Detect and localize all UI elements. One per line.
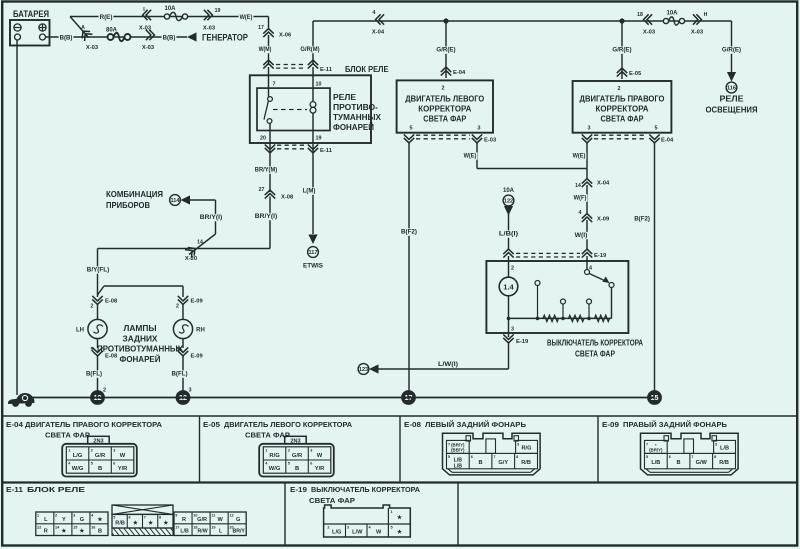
wire lamp LH top [97, 304, 99, 320]
svg-text:RH: RH [196, 328, 205, 334]
svg-text:8: 8 [516, 455, 518, 459]
svg-text:G/R(M): G/R(M) [300, 46, 319, 53]
svg-text:6: 6 [113, 462, 115, 466]
svg-text:1: 1 [265, 449, 267, 453]
svg-text:BR/Y(I): BR/Y(I) [200, 214, 222, 221]
table divider E-04/E-05 [199, 416, 201, 483]
svg-text:R: R [182, 517, 186, 523]
fuse feed 10A [503, 188, 515, 194]
svg-text:W: W [217, 517, 223, 523]
label G/R(M) [299, 46, 320, 53]
svg-text:7: 7 [273, 82, 276, 88]
label G/R(E) right [721, 46, 742, 53]
fuse 10A (right) [663, 11, 684, 26]
label W(E) right [572, 152, 587, 159]
section title E-05 [203, 420, 352, 440]
label B(F2) left [400, 228, 418, 235]
contact stud 1 [535, 281, 540, 319]
svg-text:КОМБИНАЦИЯ: КОМБИНАЦИЯ [106, 189, 163, 199]
svg-text:ОСВЕЩЕНИЯ: ОСВЕЩЕНИЯ [706, 105, 758, 115]
svg-text:G: G [236, 517, 240, 523]
svg-text:R/B: R/B [521, 460, 531, 466]
ground 15 [647, 390, 662, 405]
label W(F) [573, 194, 588, 201]
svg-text:7: 7 [691, 455, 693, 459]
connector pinout E-19 [324, 505, 411, 537]
svg-text:3: 3 [188, 388, 191, 394]
svg-text:3: 3 [517, 443, 519, 447]
svg-text:10A: 10A [503, 188, 515, 194]
svg-text:A: A [81, 25, 85, 31]
wire branch diagonal [70, 17, 89, 38]
fuse 80A [106, 28, 131, 42]
ref circle 114 [170, 195, 181, 206]
svg-text:E-09: E-09 [191, 299, 204, 305]
node sw2 [536, 317, 540, 321]
pin 19 [316, 136, 322, 142]
svg-text:G/R: G/R [197, 517, 207, 523]
resistor R1 [543, 315, 559, 321]
resistor R3 [595, 315, 610, 321]
wire lamp RH bottom [182, 339, 184, 348]
pin 2 switch [511, 266, 514, 272]
svg-text:10A: 10A [666, 11, 678, 17]
svg-text:ГЕНЕРАТОР: ГЕНЕРАТОР [202, 33, 249, 44]
label L(M) [302, 187, 317, 194]
svg-text:ТУМАННЫХ: ТУМАННЫХ [333, 113, 382, 122]
label lighting relay [706, 94, 758, 115]
connector X-09 pin 4 [579, 210, 610, 223]
svg-text:E-19: E-19 [594, 253, 607, 259]
svg-text:E-11: E-11 [320, 148, 333, 154]
svg-text:12: 12 [229, 514, 233, 518]
contact stud 2 [561, 299, 566, 318]
svg-text:W(M): W(M) [259, 46, 272, 53]
connector pinout E-05 [259, 436, 334, 476]
svg-text:6: 6 [669, 455, 671, 459]
label BR/Y(I) cluster [199, 214, 223, 221]
svg-text:2: 2 [103, 388, 106, 394]
pin 4 switch [589, 266, 592, 272]
svg-text:L/G: L/G [332, 530, 341, 536]
bulb 1.4 [499, 277, 518, 296]
svg-text:7: 7 [493, 455, 495, 459]
svg-text:W(E): W(E) [240, 14, 253, 21]
svg-text:6: 6 [310, 462, 312, 466]
svg-text:10A: 10A [164, 6, 176, 12]
svg-text:L/B: L/B [454, 463, 463, 469]
svg-text:1: 1 [391, 510, 393, 514]
svg-text:W(E): W(E) [464, 153, 477, 160]
svg-text:ПРОТИВОТУМАННЫХ: ПРОТИВОТУМАННЫХ [97, 345, 184, 354]
svg-text:R/G: R/G [269, 453, 280, 459]
svg-text:20: 20 [260, 136, 266, 142]
svg-text:L/B: L/B [180, 529, 189, 535]
relay switch contact [264, 97, 272, 124]
svg-text:B(F2): B(F2) [401, 229, 417, 236]
svg-text:СВЕТА ФАР: СВЕТА ФАР [423, 115, 467, 124]
svg-text:СВЕТА ФАР: СВЕТА ФАР [309, 496, 355, 505]
svg-text:E-04: E-04 [661, 138, 674, 144]
svg-text:E-05: E-05 [203, 420, 220, 429]
svg-text:ВЫКЛЮЧАТЕЛЬ КОРРЕКТОРА: ВЫКЛЮЧАТЕЛЬ КОРРЕКТОРА [311, 485, 420, 494]
label R(E) [99, 14, 114, 21]
svg-text:(BR/Y): (BR/Y) [649, 448, 663, 453]
wire B(F2) right [654, 143, 656, 392]
svg-text:B: B [98, 529, 102, 535]
section title E-19 [290, 485, 420, 505]
svg-text:E-08: E-08 [105, 299, 118, 305]
section title E-08 [404, 420, 527, 429]
svg-text:16: 16 [91, 525, 95, 529]
svg-text:R: R [44, 529, 48, 535]
svg-text:W(F): W(F) [574, 195, 587, 202]
wire G/R(E) left motor [445, 21, 447, 78]
connector X-03 pin 18 [637, 12, 656, 36]
relay coil [310, 102, 316, 114]
svg-text:G/R(E): G/R(E) [722, 47, 741, 54]
svg-text:4: 4 [579, 210, 582, 216]
ref circle 122 [503, 195, 514, 206]
svg-text:15: 15 [73, 525, 77, 529]
arrow from fuse 122 [504, 206, 513, 216]
svg-text:L/B(I): L/B(I) [499, 231, 518, 238]
svg-text:5: 5 [391, 526, 393, 530]
connector E-08 bottom [91, 347, 118, 360]
svg-text:19: 19 [211, 525, 215, 529]
connector pinout E-04 [62, 436, 137, 476]
label W(M) [258, 46, 273, 53]
svg-text:H: H [704, 12, 708, 18]
wire L/B(I) [508, 213, 510, 249]
label W(I) [574, 232, 589, 239]
svg-text:X-04: X-04 [372, 30, 385, 36]
svg-text:БЛОК РЕЛЕ: БЛОК РЕЛЕ [27, 485, 85, 494]
svg-text:X-03: X-03 [203, 26, 216, 32]
arrow to lighting relay [727, 72, 736, 82]
ground 12 (RH lamp) [176, 388, 192, 405]
svg-text:R(E): R(E) [100, 14, 113, 21]
car body ground [8, 393, 35, 407]
connector pinout E-11 [36, 505, 246, 536]
svg-text:19: 19 [316, 136, 322, 142]
table mid line [2, 481, 798, 483]
svg-text:3: 3 [347, 526, 349, 530]
svg-text:ПРОТИВО-: ПРОТИВО- [333, 103, 378, 112]
connector E-04 below right motor [582, 134, 674, 143]
svg-text:80A: 80A [106, 28, 118, 34]
svg-text:3: 3 [511, 327, 514, 333]
wire R(E)/W(E) top [70, 17, 269, 29]
svg-text:7: 7 [144, 516, 146, 520]
svg-text:E-03: E-03 [484, 138, 497, 144]
svg-text:G: G [80, 517, 84, 523]
switch resistor line [509, 288, 612, 319]
svg-text:5: 5 [288, 462, 290, 466]
arrow to cluster [181, 195, 191, 204]
wire switch pin3 [508, 318, 510, 337]
contact stud 3 [587, 299, 592, 318]
svg-text:1: 1 [68, 449, 70, 453]
svg-text:Y: Y [62, 517, 66, 523]
resistor R2 [569, 315, 585, 321]
connector X-03 pin A [79, 25, 99, 51]
svg-text:ПРАВЫЙ ЗАДНИЙ ФОНАРЬ: ПРАВЫЙ ЗАДНИЙ ФОНАРЬ [623, 420, 728, 429]
svg-text:X-04: X-04 [597, 181, 610, 187]
svg-text:17: 17 [258, 25, 264, 31]
svg-text:2: 2 [442, 86, 445, 92]
wire B(FL) RH [182, 356, 184, 392]
svg-text:E-08: E-08 [404, 420, 421, 429]
svg-text:3: 3 [715, 443, 717, 447]
svg-text:БЛОК РЕЛЕ: БЛОК РЕЛЕ [345, 65, 389, 74]
connector X-06 pin 17 [258, 25, 292, 39]
connector E-03 below left motor [404, 134, 497, 143]
svg-text:2: 2 [327, 526, 329, 530]
right corrector motor box [573, 81, 672, 133]
svg-text:1.4: 1.4 [503, 283, 514, 292]
svg-text:2: 2 [511, 266, 514, 272]
connector X-03 (generator) [142, 30, 155, 51]
svg-text:ВЫКЛЮЧАТЕЛЬ КОРРЕКТОРА: ВЫКЛЮЧАТЕЛЬ КОРРЕКТОРА [547, 339, 643, 348]
connector E-09 top [176, 296, 203, 310]
svg-text:B(FL): B(FL) [172, 371, 188, 378]
svg-text:LH: LH [76, 328, 84, 334]
ground 17 [401, 390, 416, 405]
svg-text:СВЕТА ФАР: СВЕТА ФАР [575, 350, 615, 359]
svg-text:L: L [44, 517, 48, 523]
table divider E-19/empty [457, 483, 459, 546]
pin 20 [260, 136, 266, 142]
svg-text:ДВИГАТЕЛЬ ПРАВОГО: ДВИГАТЕЛЬ ПРАВОГО [580, 95, 665, 104]
wire G/R(M) riser [313, 21, 732, 65]
svg-text:3: 3 [113, 449, 115, 453]
svg-text:ФОНАРЕЙ: ФОНАРЕЙ [333, 123, 374, 132]
svg-text:Y/R: Y/R [118, 466, 128, 472]
wire W(M) [268, 35, 270, 65]
wire G/R(E) lighting relay [731, 21, 733, 72]
svg-text:5: 5 [91, 347, 94, 353]
table divider E-08/E-09 [597, 416, 599, 483]
wire B/Y(FL) down [97, 249, 99, 298]
lamp LH [76, 319, 107, 338]
svg-text:W/G: W/G [269, 466, 281, 472]
connector X-03 pin H [691, 12, 708, 36]
svg-text:КОРРЕКТОРА: КОРРЕКТОРА [596, 105, 649, 114]
label instrument cluster [106, 189, 163, 210]
svg-text:L(M): L(M) [303, 188, 316, 195]
connector E-04 above left motor [441, 67, 466, 76]
svg-text:G/R: G/R [95, 453, 106, 459]
connector X-20 pin 14 [185, 240, 203, 263]
svg-text:W(E): W(E) [573, 153, 586, 160]
label L/W(I) [438, 361, 458, 368]
svg-text:W: W [120, 453, 126, 459]
wire bulb to junction [508, 296, 510, 319]
svg-text:4: 4 [373, 10, 376, 16]
pin 3 switch [511, 327, 514, 333]
label corrector switch [547, 339, 643, 359]
relay block outer box [250, 75, 371, 143]
svg-text:B: B [479, 460, 483, 466]
svg-text:3: 3 [588, 126, 591, 132]
wire RH branch [98, 286, 184, 297]
svg-text:ЛАМПЫ: ЛАМПЫ [124, 324, 157, 333]
svg-text:G/R(E): G/R(E) [612, 47, 631, 54]
svg-text:2: 2 [91, 449, 93, 453]
svg-text:B/Y(FL): B/Y(FL) [87, 267, 109, 274]
svg-text:2: 2 [91, 304, 94, 310]
ref circle 123 [358, 364, 369, 375]
wire W(E) left motor [477, 143, 587, 169]
svg-text:E-09: E-09 [602, 420, 619, 429]
switch wiper [585, 256, 610, 283]
svg-text:18: 18 [637, 12, 643, 18]
svg-text:ДВИГАТЕЛЬ ПРАВОГО КОРРЕКТОРА: ДВИГАТЕЛЬ ПРАВОГО КОРРЕКТОРА [25, 420, 163, 429]
node junction right motor [619, 18, 624, 23]
svg-text:ПРИБОРОВ: ПРИБОРОВ [106, 200, 150, 210]
svg-text:122: 122 [504, 199, 513, 205]
svg-text:6: 6 [128, 516, 130, 520]
label B/Y(FL) [86, 266, 110, 273]
connector E-08 top [91, 296, 118, 310]
label rear fog lamps [97, 324, 184, 364]
svg-text:114: 114 [170, 198, 180, 204]
wire relay pin19 [312, 113, 314, 234]
connector E-19 top [503, 249, 607, 259]
svg-text:2: 2 [288, 449, 290, 453]
connector pinout E-08 [443, 433, 541, 475]
svg-text:5: 5 [91, 462, 93, 466]
svg-text:X-03: X-03 [139, 26, 152, 32]
relay dashed link [273, 109, 307, 111]
table divider E-11/E-19 [284, 483, 286, 546]
ground 12 (LH lamp) [90, 388, 106, 405]
svg-text:E-09: E-09 [191, 354, 204, 360]
svg-text:G/R: G/R [292, 453, 303, 459]
label B(B) battery [59, 34, 74, 41]
label W(E) left [463, 152, 478, 159]
ref circle 116 [726, 82, 737, 93]
svg-text:11: 11 [211, 514, 215, 518]
svg-text:B: B [98, 466, 102, 472]
svg-text:Y/R: Y/R [315, 466, 325, 472]
svg-text:СВЕТА ФАР: СВЕТА ФАР [45, 431, 90, 440]
node sw1 [507, 317, 511, 321]
svg-text:КОРРЕКТОРА: КОРРЕКТОРА [418, 105, 471, 114]
svg-text:E-11: E-11 [6, 485, 23, 494]
svg-text:W: W [376, 530, 382, 536]
fuse 10A (left) [164, 6, 187, 21]
svg-text:27: 27 [259, 187, 265, 193]
svg-text:G/Y: G/Y [498, 460, 508, 466]
label B(B) generator [162, 34, 177, 41]
svg-text:B(B): B(B) [60, 35, 73, 42]
svg-text:РЕЛЕ: РЕЛЕ [333, 93, 356, 102]
wire switch pin2 [508, 256, 510, 278]
connector pinout E-09 [641, 433, 739, 475]
svg-text:X-03: X-03 [86, 45, 99, 51]
svg-text:B(F2): B(F2) [634, 216, 650, 223]
svg-text:116: 116 [727, 86, 736, 92]
label BR/Y(M) [254, 166, 278, 173]
svg-text:5: 5 [448, 455, 450, 459]
svg-text:ФОНАРЕЙ: ФОНАРЕЙ [120, 353, 161, 364]
label B(FL) RH [171, 370, 189, 377]
label L/B(I) [498, 230, 519, 237]
svg-text:W/G: W/G [72, 466, 84, 472]
node sw4 [587, 317, 591, 321]
svg-text:W(I): W(I) [575, 232, 588, 239]
svg-text:5: 5 [113, 516, 115, 520]
table top line [2, 415, 798, 417]
wire B(F2) left [408, 143, 410, 392]
connector E-05 above right motor [617, 68, 642, 77]
svg-text:E-05: E-05 [629, 71, 642, 77]
connector X-08 pin 27 [259, 187, 294, 201]
section title E-04 [6, 420, 163, 440]
svg-text:3: 3 [73, 514, 75, 518]
svg-text:7: 7 [448, 443, 450, 447]
svg-text:L/B: L/B [720, 446, 729, 452]
svg-text:7: 7 [646, 443, 648, 447]
wire W(F) [586, 185, 588, 213]
svg-text:3: 3 [310, 449, 312, 453]
svg-text:R/G: R/G [522, 446, 532, 452]
svg-text:5: 5 [410, 126, 413, 132]
svg-text:6: 6 [471, 455, 473, 459]
wire relay pin10 [312, 67, 314, 101]
connector X-04 pin 4 [372, 10, 385, 36]
svg-text:BR/Y(M): BR/Y(M) [255, 167, 277, 174]
label W(E) [239, 14, 254, 21]
arrow ETWIS [308, 235, 317, 245]
svg-text:2: 2 [176, 304, 179, 310]
connector E-19 bottom [503, 334, 529, 345]
svg-text:X-09: X-09 [597, 217, 610, 223]
connector X-03 pin 19 [203, 8, 221, 32]
wire relay pin20 [269, 123, 271, 192]
wire B(B) battery row [46, 36, 188, 38]
svg-text:9: 9 [175, 514, 177, 518]
generator arrow [187, 32, 249, 43]
svg-text:L/W: L/W [352, 530, 363, 536]
svg-text:R/B: R/B [719, 460, 729, 466]
svg-text:E-11: E-11 [320, 67, 333, 73]
svg-text:X-03: X-03 [691, 30, 704, 36]
label ETWIS [303, 263, 324, 270]
pin 10 [316, 82, 322, 88]
svg-text:117: 117 [308, 250, 317, 256]
label fog lamp relay [333, 93, 382, 132]
svg-text:1: 1 [37, 514, 39, 518]
svg-text:17: 17 [175, 525, 179, 529]
battery [10, 9, 50, 46]
svg-text:5: 5 [646, 455, 648, 459]
svg-text:14: 14 [197, 240, 203, 246]
svg-text:8: 8 [714, 455, 716, 459]
svg-text:E-04: E-04 [453, 70, 466, 76]
svg-text:E-04: E-04 [6, 420, 24, 429]
pin 7 [273, 82, 276, 88]
connector E-09 bottom [176, 347, 203, 360]
arrow 123 [369, 364, 379, 373]
svg-text:5: 5 [176, 347, 179, 353]
svg-text:14: 14 [575, 183, 581, 189]
svg-text:G/R(E): G/R(E) [436, 47, 455, 54]
svg-text:2: 2 [55, 514, 57, 518]
svg-text:L/W(I): L/W(I) [438, 361, 458, 368]
